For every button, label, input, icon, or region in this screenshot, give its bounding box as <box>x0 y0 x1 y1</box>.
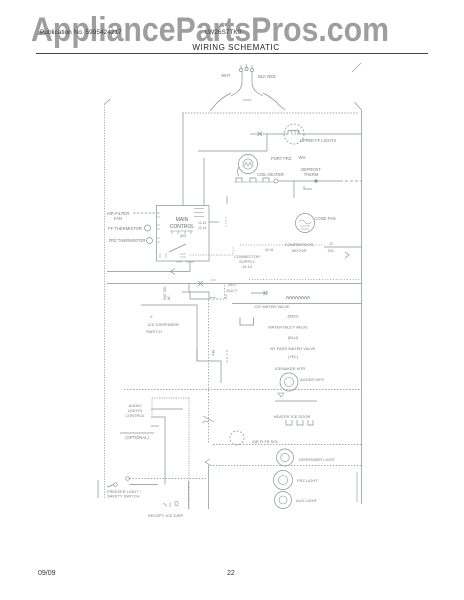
defrost thermostat wire <box>278 180 340 182</box>
svg-text:09/09: 09/09 <box>38 570 56 577</box>
svg-text:(5V): (5V) <box>180 234 186 238</box>
rail at 465 <box>210 465 362 467</box>
wire control to connector supply <box>190 246 233 255</box>
svg-text:NC: NC <box>167 295 171 300</box>
title rule <box>36 53 428 55</box>
rail2 switch blade <box>198 281 203 286</box>
svg-text:AIR FLTR SOL: AIR FLTR SOL <box>252 439 279 444</box>
svg-text:COIL HEATER: COIL HEATER <box>257 172 284 177</box>
dotted aux rail <box>249 279 362 281</box>
svg-text:Publication No. 5995424217: Publication No. 5995424217 <box>40 29 122 36</box>
svg-text:LW26S7TK0: LW26S7TK0 <box>205 29 242 36</box>
svg-text:(YEL): (YEL) <box>288 354 299 359</box>
svg-text:FRZ LIGHT: FRZ LIGHT <box>297 478 318 483</box>
svg-text:MAIN: MAIN <box>176 217 189 223</box>
svg-text:X: X <box>150 314 153 319</box>
dispenser feed wire <box>141 305 221 383</box>
svg-text:22: 22 <box>227 570 235 577</box>
drop from control to rail1 <box>189 261 191 272</box>
control right pin dashes <box>194 209 204 217</box>
evap fan motor <box>239 155 258 174</box>
water valve solenoid box <box>182 292 209 299</box>
switch rail dashed <box>130 478 208 480</box>
svg-text:WATER INLET VALVE: WATER INLET VALVE <box>268 325 308 330</box>
freezer safety switch <box>114 483 118 487</box>
right bus corner tick <box>355 102 362 110</box>
svg-text:COMPRESSOR: COMPRESSOR <box>285 242 314 247</box>
bump row baseline <box>234 181 274 183</box>
left tick marks <box>210 280 216 298</box>
bracket marks <box>205 459 210 465</box>
evap fan lead <box>238 167 240 176</box>
icemaker connector stubs <box>197 348 213 361</box>
power cord plug prong circles <box>239 68 242 71</box>
svg-text:DISPENSER LIGHT: DISPENSER LIGHT <box>299 457 336 462</box>
main control box <box>157 206 210 262</box>
ff light wire to bus <box>304 133 362 135</box>
control inner line <box>170 231 193 234</box>
control left pin D2 <box>157 238 160 242</box>
dashed rail mid low <box>124 389 362 391</box>
switch lower wire <box>130 484 159 486</box>
svg-text:ICE DISPENSER: ICE DISPENSER <box>148 322 179 327</box>
relay arrow <box>345 252 349 258</box>
water sol drop wire <box>188 284 190 293</box>
wire control right stub <box>209 221 219 223</box>
control bottom pins <box>160 253 186 258</box>
rail at 444 <box>213 444 362 446</box>
ice door line <box>275 400 317 402</box>
ff light branch wire <box>250 133 284 135</box>
svg-text:FF THERMISTOR: FF THERMISTOR <box>108 226 142 231</box>
heater rail wire <box>232 303 362 305</box>
svg-text:BLK RED: BLK RED <box>258 74 276 79</box>
frz light bulb <box>274 471 293 490</box>
svg-text:J4-10: J4-10 <box>242 264 253 269</box>
stray corner mark <box>352 63 361 72</box>
receptacle drops <box>189 465 209 509</box>
optional rule <box>120 432 154 434</box>
svg-text:ADJ: ADJ <box>228 282 236 287</box>
ff light bulb <box>284 124 304 144</box>
svg-text:J1-14: J1-14 <box>198 226 207 230</box>
svg-text:WHT: WHT <box>221 73 231 78</box>
svg-text:C: C <box>213 350 216 354</box>
svg-text:(OPTIONAL): (OPTIONAL) <box>125 435 149 440</box>
cond fan riser wire <box>293 181 295 198</box>
control left pin A <box>157 213 160 217</box>
heater pin cups <box>286 420 313 425</box>
svg-text:MOTOR: MOTOR <box>292 248 307 253</box>
svg-text:(RED): (RED) <box>287 314 299 319</box>
svg-text:AUX LIGHT: AUX LIGHT <box>296 498 318 503</box>
dispenser inner line1 <box>151 408 183 410</box>
svg-text:BY-PASS WATER VALVE: BY-PASS WATER VALVE <box>270 346 316 351</box>
ff thermistor circle <box>145 225 151 231</box>
control relay blade <box>169 244 186 252</box>
svg-text:WH: WH <box>299 155 306 160</box>
solenoid dashes right <box>209 298 224 300</box>
defrost heater coil <box>286 297 310 300</box>
dashes right of control <box>225 217 227 228</box>
right bus wire <box>361 110 363 504</box>
dispenser light bulb <box>277 449 294 466</box>
wire lower rail 1 <box>107 271 190 273</box>
cond fan motor <box>296 214 315 233</box>
svg-text:J4-2: J4-2 <box>224 294 228 300</box>
svg-text:PORT FRZ: PORT FRZ <box>271 156 292 161</box>
defrost thermostat symbol <box>304 186 312 189</box>
plug ground dash <box>243 99 251 101</box>
defrost dashed wire to bus <box>340 180 362 182</box>
right stub <box>356 472 358 502</box>
feeder switch blade <box>203 416 215 423</box>
top bus dashed wire <box>182 112 358 114</box>
frz thermistor circle <box>147 238 153 244</box>
aux light bulb <box>275 492 292 509</box>
svg-text:J1-13: J1-13 <box>198 221 207 225</box>
svg-text:AUGER MTR: AUGER MTR <box>300 377 324 382</box>
svg-text:SOL: SOL <box>328 249 335 253</box>
rail1 connector mark <box>171 269 176 275</box>
svg-text:SWITCH: SWITCH <box>146 329 162 334</box>
u-box component <box>240 318 254 326</box>
svg-text:J4-16: J4-16 <box>265 248 274 252</box>
left border corner tick <box>105 99 111 104</box>
dispenser inner line2 <box>151 417 165 485</box>
compressor dotted run <box>240 244 324 246</box>
auger motor <box>280 373 298 391</box>
svg-text:THERM: THERM <box>304 172 319 177</box>
svg-text:CONTROL: CONTROL <box>170 224 195 230</box>
connector bump row <box>236 178 269 182</box>
svg-text:J2: J2 <box>329 242 333 246</box>
dispenser control box <box>152 398 189 416</box>
plug shell <box>210 93 285 111</box>
relay line <box>324 246 362 248</box>
svg-text:FAN: FAN <box>114 216 122 221</box>
dashed feeder vertical <box>208 300 210 444</box>
air filter fan lead <box>133 212 157 214</box>
wire control to light branch <box>198 134 267 206</box>
aux dashed stub vertical <box>224 285 226 300</box>
svg-text:DUCT: DUCT <box>226 288 238 293</box>
svg-text:COND FAN: COND FAN <box>314 216 335 221</box>
dispenser stub dash <box>151 425 159 427</box>
aux arrow <box>251 291 267 296</box>
plug prong ticks <box>241 64 252 68</box>
air filter solenoid dashed circle <box>230 431 244 445</box>
svg-text:UPPER FF LIGHTS: UPPER FF LIGHTS <box>300 138 336 143</box>
light switch blade <box>258 132 263 137</box>
svg-text:HEATER ICE DOOR: HEATER ICE DOOR <box>274 414 311 419</box>
svg-text:(BLU): (BLU) <box>288 335 299 340</box>
connector circle <box>274 179 278 183</box>
left border <box>104 104 106 499</box>
svg-text:WIRING SCHEMATIC: WIRING SCHEMATIC <box>192 43 279 52</box>
wire lower rail 2 <box>107 283 362 285</box>
svg-text:ICE WATER VALVE: ICE WATER VALVE <box>254 304 290 309</box>
control left pin D1 <box>157 225 160 229</box>
svg-text:ICEMAKER MTR: ICEMAKER MTR <box>275 366 306 371</box>
svg-text:FRZ THERMISTOR: FRZ THERMISTOR <box>109 238 146 243</box>
plug body <box>231 72 263 96</box>
defrost junction dot <box>315 180 318 183</box>
svg-text:RECEPT. ICE DISP: RECEPT. ICE DISP <box>148 513 183 518</box>
svg-text:CONTROL: CONTROL <box>125 413 145 418</box>
drop wire to control box <box>182 113 184 206</box>
svg-text:SAFETY SWITCH: SAFETY SWITCH <box>107 494 139 499</box>
auger triangle <box>278 393 284 397</box>
receptacle pins <box>163 501 178 507</box>
icemaker dashes <box>226 350 228 364</box>
